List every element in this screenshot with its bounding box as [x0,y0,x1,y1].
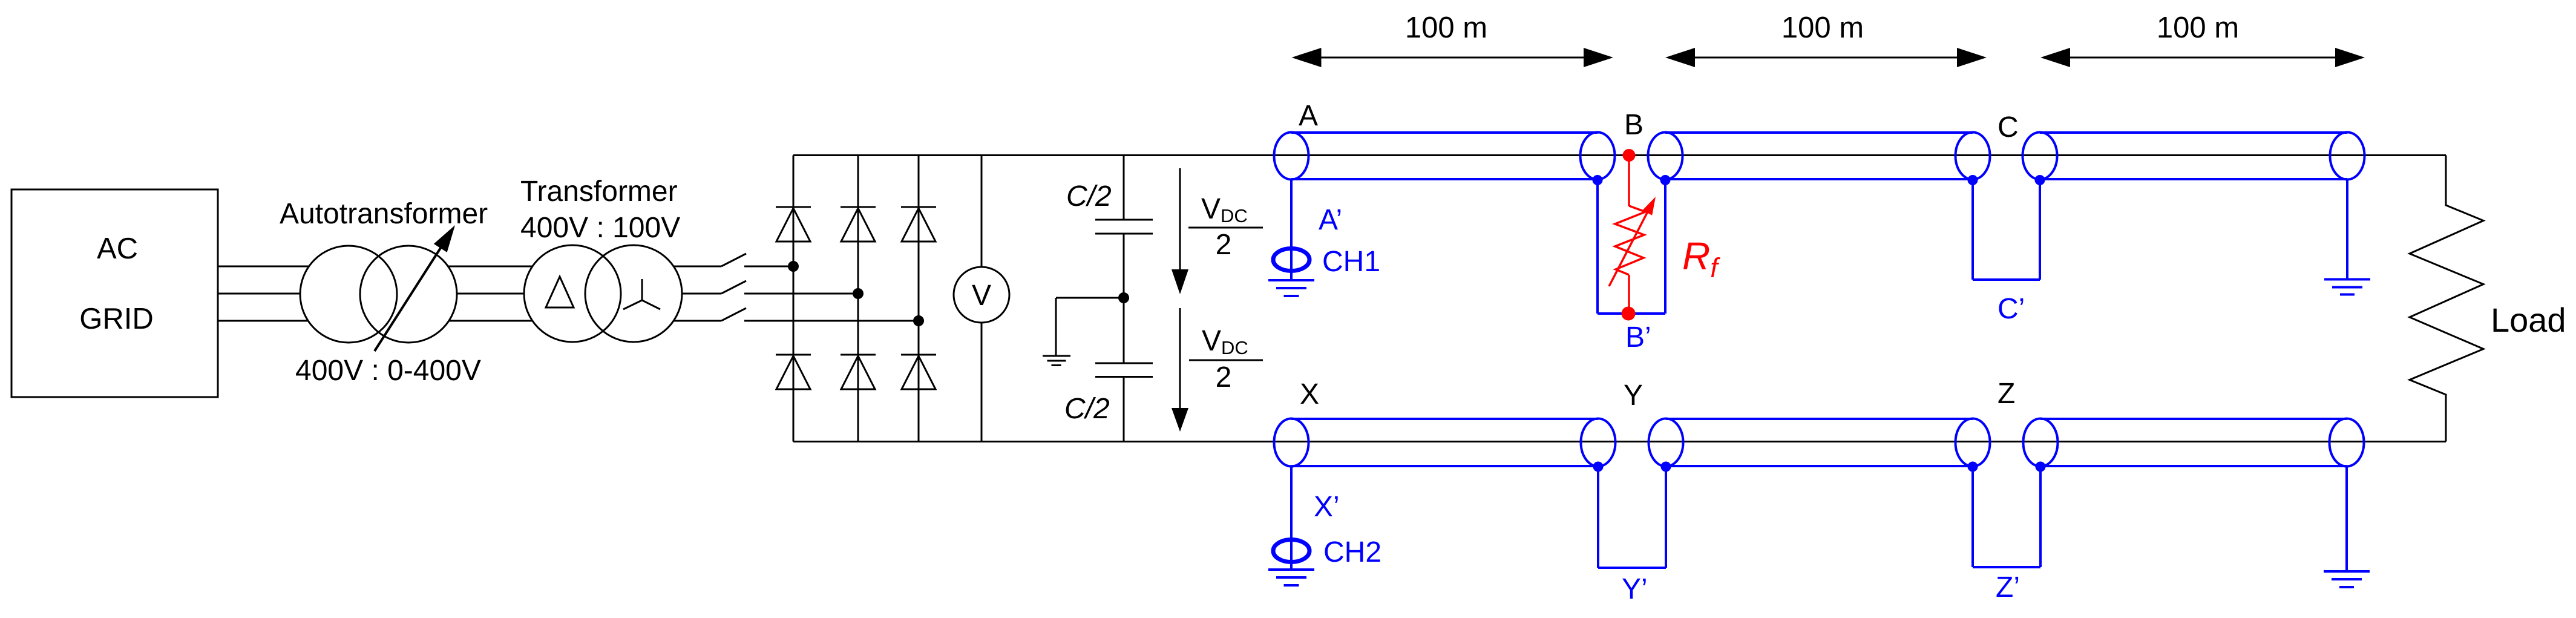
svg-text:Load: Load [2491,301,2566,339]
svg-text:A: A [1299,100,1318,132]
svg-text:Y: Y [1624,380,1643,412]
svg-text:2: 2 [1216,361,1232,393]
svg-text:100 m: 100 m [1781,12,1864,44]
svg-text:Z: Z [1998,378,2015,410]
svg-text:VDC: VDC [1202,325,1248,358]
svg-text:B: B [1624,109,1644,141]
svg-text:C/2: C/2 [1064,393,1110,425]
svg-text:B’: B’ [1625,321,1651,353]
svg-text:Autotransformer: Autotransformer [280,198,488,230]
svg-text:Z’: Z’ [1996,571,2020,603]
svg-text:C/2: C/2 [1066,180,1112,212]
svg-text:A’: A’ [1319,204,1342,236]
svg-text:CH2: CH2 [1323,536,1381,568]
svg-text:400V : 0-400V: 400V : 0-400V [295,355,481,387]
svg-text:2: 2 [1216,229,1232,261]
svg-text:AC: AC [97,232,138,265]
svg-text:X: X [1300,378,1319,410]
svg-text:Y’: Y’ [1622,573,1648,605]
svg-text:100 m: 100 m [1405,12,1487,44]
svg-text:Transformer: Transformer [520,176,678,208]
svg-text:X’: X’ [1314,491,1340,523]
svg-text:Rf: Rf [1682,234,1720,283]
svg-text:GRID: GRID [79,303,154,335]
svg-text:V: V [972,280,991,312]
svg-text:C: C [1998,111,2019,143]
svg-text:100 m: 100 m [2157,12,2239,44]
svg-text:400V : 100V: 400V : 100V [520,212,680,244]
svg-text:VDC: VDC [1201,193,1248,226]
svg-text:C’: C’ [1998,293,2025,325]
svg-text:CH1: CH1 [1322,246,1380,278]
